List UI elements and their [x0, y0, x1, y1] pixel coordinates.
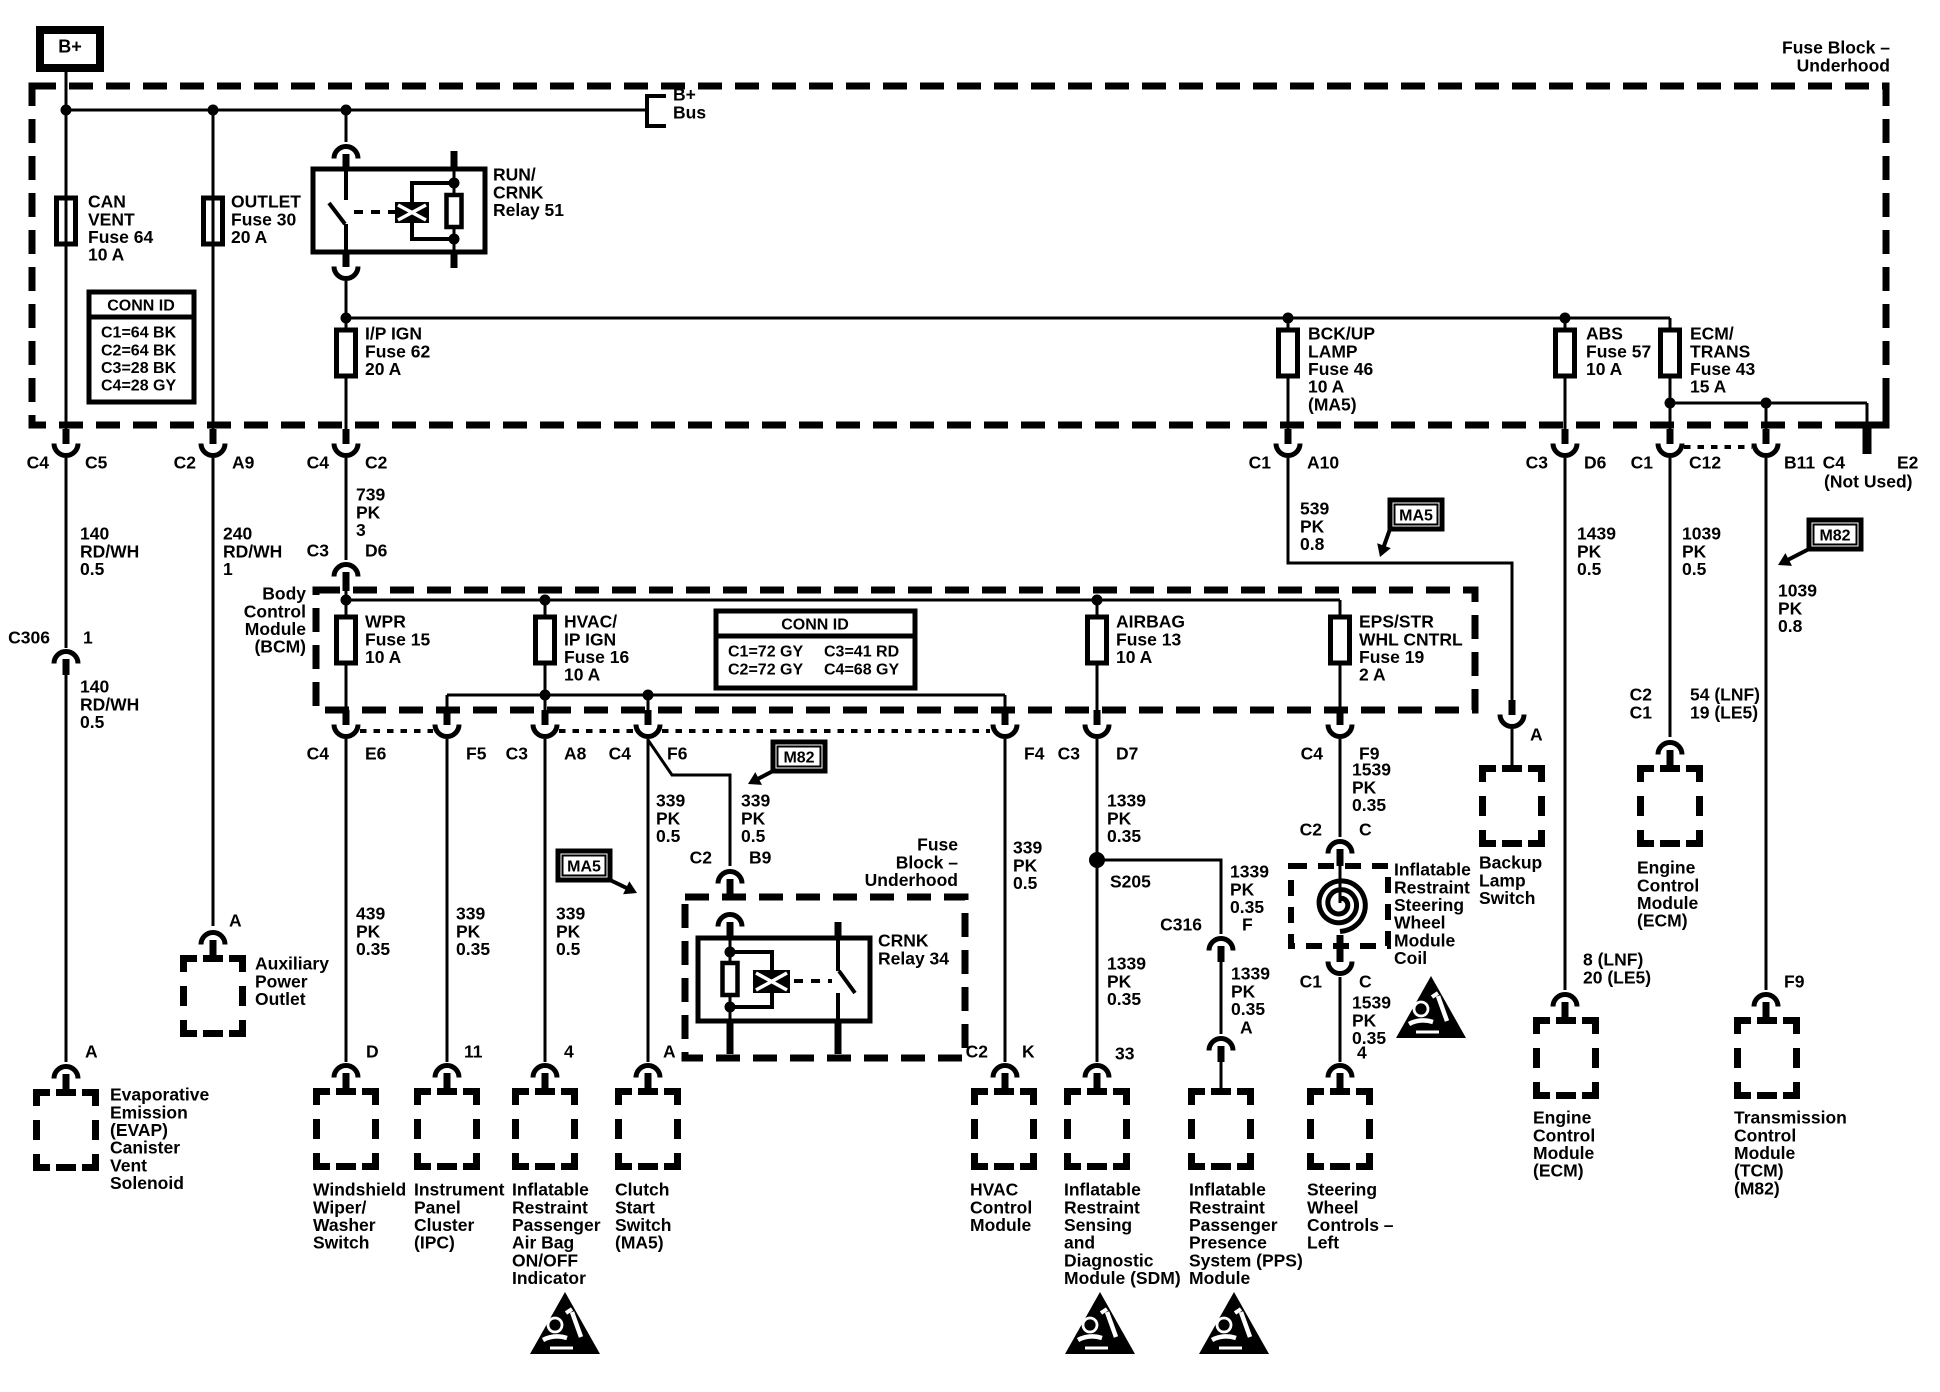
svg-text:A: A [1530, 725, 1543, 745]
svg-text:Solenoid: Solenoid [110, 1173, 184, 1193]
dotted connector tie E6-F5 [360, 729, 433, 733]
wire: into backup lamp switch [1511, 729, 1514, 765]
svg-text:0.35: 0.35 [456, 939, 490, 959]
svg-text:Underhood: Underhood [1797, 55, 1890, 75]
wire: B11 drop [1765, 403, 1768, 429]
svg-text:C2: C2 [690, 848, 713, 868]
svg-text:C3: C3 [1526, 453, 1549, 473]
node: junction AIRBAG fuse [1092, 595, 1103, 606]
svg-text:Outlet: Outlet [255, 989, 306, 1009]
wire: C12 drop [1669, 403, 1672, 429]
connector 11 into IPC [435, 1066, 459, 1078]
node: junction BCK/UP LAMP [1283, 313, 1294, 324]
svg-text:0.5: 0.5 [1577, 559, 1602, 579]
wire: relay 51 output to ignition bus [345, 281, 348, 318]
connector A backup lamp switch (cup) [1509, 700, 1516, 715]
connector 4 into air bag indicator [533, 1066, 557, 1078]
connector F4 (cup) [1002, 710, 1009, 725]
svg-text:C2: C2 [174, 453, 197, 473]
wire 339 PK 0.35 IPC [446, 739, 449, 1062]
fuse WPR Fuse 15 [345, 600, 348, 617]
svg-text:Relay 51: Relay 51 [493, 200, 564, 220]
svg-text:Module: Module [1189, 1268, 1251, 1288]
svg-text:(M82): (M82) [1734, 1178, 1780, 1198]
connector C4/C2 (cup) [343, 429, 350, 444]
wire: fuse 43 splice bus horizontal [1670, 402, 1867, 405]
svg-text:0.35: 0.35 [356, 939, 390, 959]
fuse OUTLET Fuse 30 [204, 198, 223, 244]
svg-text:C3=41 RD: C3=41 RD [824, 644, 899, 661]
connector C4/F6 (cup) [645, 710, 652, 725]
node: junction ABS [1560, 313, 1571, 324]
wire: fuse 43 to splice bus [1669, 376, 1672, 403]
icon: airbag warning triangle (indicator) [530, 1292, 600, 1354]
wire: fuse 46 to A10 [1287, 376, 1290, 429]
connector C2/A9 (cup) [210, 429, 217, 444]
svg-text:A: A [663, 1042, 676, 1062]
svg-text:CONN ID: CONN ID [107, 298, 175, 315]
svg-text:Indicator: Indicator [512, 1268, 586, 1288]
svg-text:S205: S205 [1110, 872, 1151, 892]
component: HVAC control module box [975, 1092, 1034, 1167]
component: transmission control module box [1738, 1021, 1797, 1096]
wire: into PPS module [1220, 1062, 1223, 1088]
svg-text:C1: C1 [1631, 453, 1654, 473]
component: SDM box [1068, 1092, 1127, 1167]
wire: F6 zigzag to B9 [648, 740, 730, 866]
wire: fuse 62 to C2 [345, 376, 348, 429]
connector C3/D6 fuse block (cup) [1562, 429, 1569, 444]
svg-text:D: D [366, 1042, 379, 1062]
svg-text:C4: C4 [307, 744, 330, 764]
wire: F5 drop [446, 695, 449, 710]
node: bus junction at OUTLET feed [208, 105, 219, 116]
svg-text:(IPC): (IPC) [414, 1233, 455, 1253]
wire 140 RD/WH 0.5 upper [65, 458, 68, 648]
svg-text:2 A: 2 A [1359, 665, 1386, 685]
fuse AIRBAG Fuse 13 [1096, 600, 1099, 617]
connector F9 into TCM (cap) [1754, 995, 1778, 1007]
svg-text:B11: B11 [1784, 453, 1815, 473]
svg-text:D7: D7 [1116, 744, 1138, 764]
wire: B+ feed down from B+ box [65, 68, 68, 110]
svg-text:A: A [85, 1042, 98, 1062]
wire: S205 branch to C316 [1097, 860, 1221, 934]
svg-text:C4=28 GY: C4=28 GY [101, 378, 176, 395]
svg-text:C2=72 GY: C2=72 GY [728, 661, 803, 678]
wire 539 PK 0.8 from A10 [1288, 458, 1512, 700]
node: junction I/P IGN [341, 313, 352, 324]
svg-text:19 (LE5): 19 (LE5) [1690, 702, 1758, 722]
svg-text:C306: C306 [8, 628, 50, 648]
svg-text:10 A: 10 A [88, 245, 125, 265]
svg-text:C12: C12 [1689, 453, 1721, 473]
svg-text:0.5: 0.5 [656, 826, 681, 846]
connector A into EVAP solenoid [54, 1067, 78, 1079]
component: clutch start switch box [619, 1092, 678, 1167]
svg-text:15 A: 15 A [1690, 377, 1727, 397]
wire: ignition feed bus horizontal [346, 317, 1670, 320]
svg-text:11: 11 [464, 1042, 483, 1062]
svg-text:(ECM): (ECM) [1637, 911, 1688, 931]
connector A into clutch start switch [636, 1066, 660, 1078]
wire 1039 PK 0.8 [1765, 458, 1768, 990]
svg-text:Switch: Switch [1479, 888, 1535, 908]
wire: fuse 19 to F9 [1339, 663, 1342, 710]
connector C3/A8 (cup) [542, 710, 549, 725]
svg-text:Left: Left [1307, 1233, 1339, 1253]
svg-text:4: 4 [564, 1042, 574, 1062]
svg-text:0.5: 0.5 [1013, 873, 1038, 893]
fuse CAN VENT Fuse 64 [57, 198, 76, 244]
svg-text:10 A: 10 A [365, 647, 402, 667]
connector A into auxiliary power outlet [201, 933, 225, 945]
svg-text:0.5: 0.5 [556, 939, 581, 959]
svg-text:(BCM): (BCM) [254, 637, 306, 657]
component: steering wheel module coil dashed box [1291, 866, 1388, 946]
connector into steering wheel controls [1328, 1066, 1352, 1078]
svg-text:4: 4 [1357, 1043, 1367, 1063]
wire: fuse 16 to lower bus [544, 663, 547, 695]
svg-text:0.5: 0.5 [80, 712, 105, 732]
svg-text:B+: B+ [58, 37, 82, 57]
svg-text:C1=64 BK: C1=64 BK [101, 325, 177, 342]
callout MA5 (clutch wire) [558, 851, 637, 894]
component: engine control module box (right) [1641, 769, 1700, 844]
B+ terminal box [40, 30, 100, 68]
svg-text:0.8: 0.8 [1778, 616, 1803, 636]
svg-text:MA5: MA5 [567, 859, 601, 876]
dotted connector tie F6-F4 [662, 729, 990, 733]
fuse I/P IGN Fuse 62 [345, 318, 348, 330]
svg-text:Switch: Switch [313, 1233, 369, 1253]
wire: BCM lower bus [447, 694, 1005, 697]
component: steering wheel controls box [1311, 1092, 1370, 1167]
svg-text:A: A [229, 911, 242, 931]
connector C3/D6 into BCM (cap) [334, 565, 358, 577]
connector C4/F9 (cup) [1337, 710, 1344, 725]
connector C2/C into coil (cap) [1328, 842, 1352, 854]
svg-text:C4: C4 [27, 453, 50, 473]
wire 1339 PK 0.35 upper SDM [1096, 739, 1099, 1062]
svg-text:F5: F5 [466, 744, 487, 764]
wire 1539 PK 0.35 4 to steering wheel controls [1339, 977, 1342, 1062]
svg-text:A: A [1240, 1018, 1253, 1038]
svg-text:(MA5): (MA5) [1308, 394, 1357, 414]
svg-text:A10: A10 [1307, 453, 1339, 473]
svg-text:D6: D6 [1584, 453, 1607, 473]
svg-text:Coil: Coil [1394, 948, 1427, 968]
svg-text:20 A: 20 A [231, 227, 268, 247]
component: instrument panel cluster box [418, 1092, 477, 1167]
connector into ECM (8/20) (cap) [1553, 995, 1577, 1007]
node: junction B11 feed [1761, 398, 1772, 409]
svg-text:0.35: 0.35 [1107, 989, 1141, 1009]
svg-text:C3: C3 [506, 744, 529, 764]
node: junction F6 [643, 690, 654, 701]
svg-text:10 A: 10 A [1586, 359, 1623, 379]
svg-text:20 (LE5): 20 (LE5) [1583, 967, 1651, 987]
svg-text:0.5: 0.5 [1682, 559, 1707, 579]
wire: OUTLET fuse feed [212, 110, 215, 429]
svg-text:(MA5): (MA5) [615, 1233, 664, 1253]
wire: CAN VENT fuse feed [65, 110, 68, 429]
dotted connector tie A8-F6 [559, 729, 634, 733]
fuse ABS Fuse 57 [1564, 318, 1567, 330]
svg-text:C3: C3 [307, 541, 330, 561]
svg-text:CONN ID: CONN ID [781, 617, 849, 634]
connector D into wiper switch [334, 1066, 358, 1078]
connector C4/C5 (cup) [63, 429, 70, 444]
svg-text:C1: C1 [1249, 453, 1272, 473]
connector C1/C12 (cup) [1667, 429, 1674, 444]
node: junction WPR [341, 595, 352, 606]
svg-text:C2: C2 [1300, 820, 1323, 840]
fuse block - underhood (top) dashed box [32, 86, 1886, 425]
component: engine control module box (left) [1537, 1021, 1596, 1096]
table: CONN ID (BCM) [716, 611, 915, 688]
node: bus junction at CAN VENT feed [61, 105, 72, 116]
svg-text:0.8: 0.8 [1300, 534, 1325, 554]
svg-text:0.5: 0.5 [741, 826, 766, 846]
wire 439 PK 0.35 windshield [345, 739, 348, 1062]
svg-text:C3: C3 [1058, 744, 1081, 764]
svg-text:C: C [1359, 820, 1372, 840]
svg-text:0.35: 0.35 [1231, 999, 1265, 1019]
connector B11 (cup) [1763, 429, 1770, 444]
svg-text:C: C [1359, 972, 1372, 992]
svg-text:C3=28 BK: C3=28 BK [101, 360, 177, 377]
svg-text:10 A: 10 A [564, 665, 601, 685]
wire 140 RD/WH 0.5 lower [65, 675, 68, 1062]
wire 339 PK clutch straight [647, 739, 650, 1062]
wire 1539 PK 0.35 from F9 [1339, 739, 1342, 837]
component: EVAP canister vent solenoid box [37, 1093, 96, 1168]
icon: airbag warning triangle (coil) [1396, 976, 1466, 1038]
node: junction HVAC fuse [540, 595, 551, 606]
wire 739 PK 3 [345, 458, 348, 560]
B+ Bus terminal symbol [647, 96, 666, 126]
component: passenger air bag on/off indicator box [516, 1092, 575, 1167]
svg-text:0.35: 0.35 [1107, 826, 1141, 846]
svg-text:20 A: 20 A [365, 359, 402, 379]
svg-text:0.5: 0.5 [80, 559, 105, 579]
component: PPS module box [1192, 1092, 1251, 1167]
svg-text:B9: B9 [749, 848, 772, 868]
connector C3/D7 (cup) [1094, 710, 1101, 725]
connector A inline above PPS (cap) [1209, 1039, 1233, 1051]
wire: A8 drop [544, 695, 547, 710]
svg-text:1: 1 [83, 628, 93, 648]
svg-text:F9: F9 [1784, 972, 1805, 992]
node: junction A8 [540, 690, 551, 701]
node: bus junction at relay 51 feed [341, 105, 352, 116]
svg-text:3: 3 [356, 520, 366, 540]
wire: fuse 13 to D7 [1096, 663, 1099, 710]
component: auxiliary power outlet box [184, 959, 243, 1034]
connector: coil output stub through box [1337, 935, 1344, 962]
svg-text:1: 1 [223, 559, 233, 579]
svg-text:A8: A8 [564, 744, 587, 764]
svg-text:(ECM): (ECM) [1533, 1161, 1584, 1181]
svg-text:F6: F6 [667, 744, 688, 764]
wire: WPR fuse to E6 [345, 663, 348, 710]
svg-text:Bus: Bus [673, 102, 706, 122]
wire 1339 PK 0.35 to PPS [1220, 962, 1223, 1034]
svg-text:C1: C1 [1300, 972, 1323, 992]
wire 339 PK 0.5 HVAC [1004, 739, 1007, 1062]
svg-text:M82: M82 [1819, 528, 1850, 545]
svg-text:E2: E2 [1897, 453, 1919, 473]
component: backup lamp switch box [1483, 769, 1542, 844]
svg-text:A9: A9 [232, 453, 255, 473]
svg-text:M82: M82 [783, 750, 814, 767]
connector C4/E6 (cup) [343, 710, 350, 725]
svg-text:0.35: 0.35 [1352, 795, 1386, 815]
svg-text:C4: C4 [307, 453, 330, 473]
connector: relay 51 output (cup) [343, 252, 350, 267]
terminal E2 not used (solid bar) [1863, 425, 1872, 454]
node: junction C12 feed [1665, 398, 1676, 409]
connector C2/K into HVAC control module [993, 1066, 1017, 1078]
svg-text:C2: C2 [365, 453, 388, 473]
callout M82 (B9 wire) [748, 742, 825, 785]
callout MA5 (A10 wire) [1377, 500, 1442, 557]
fuse EPS/STR WHL CNTRL Fuse 19 [1331, 617, 1350, 663]
svg-text:C5: C5 [85, 453, 108, 473]
svg-text:F4: F4 [1024, 744, 1045, 764]
svg-text:C2: C2 [966, 1042, 989, 1062]
svg-text:C1=72 GY: C1=72 GY [728, 644, 803, 661]
svg-text:C4: C4 [1301, 744, 1324, 764]
svg-text:Underhood: Underhood [865, 870, 958, 890]
svg-text:F: F [1242, 915, 1253, 935]
wire 240 RD/WH 1 [212, 458, 215, 926]
op: relay CRNK Relay 34 [698, 922, 870, 1054]
wire 1039 PK 0.5 [1669, 458, 1672, 737]
connector 33 into SDM [1085, 1066, 1109, 1078]
icon: airbag warning triangle (PPS) [1199, 1292, 1269, 1354]
svg-text:Module: Module [970, 1215, 1032, 1235]
wire: B+ bus horizontal [64, 109, 647, 112]
dotted connector tie C12-B11 [1684, 445, 1752, 449]
connector: relay 51 pin 1 (cap) [334, 147, 358, 159]
svg-text:C4=68 GY: C4=68 GY [824, 661, 899, 678]
callout M82 (B11 wire) [1778, 520, 1861, 566]
svg-text:33: 33 [1115, 1044, 1135, 1064]
wire: F6 drop [647, 695, 650, 710]
module: body control module dashed box [316, 590, 1475, 710]
fuse block - underhood (lower) dashed box [685, 897, 965, 1058]
connector C2/B9 (cap) [718, 872, 742, 884]
svg-text:MA5: MA5 [1399, 508, 1433, 525]
svg-text:Relay 34: Relay 34 [878, 948, 949, 968]
svg-text:10 A: 10 A [1116, 647, 1153, 667]
wire: fuse 57 to D6 [1564, 376, 1567, 429]
svg-text:C316: C316 [1160, 915, 1202, 935]
svg-text:Module (SDM): Module (SDM) [1064, 1268, 1181, 1288]
svg-text:E6: E6 [365, 744, 387, 764]
icon: airbag warning triangle (SDM) [1065, 1292, 1135, 1354]
wire: EPS fuse drop [1339, 600, 1342, 617]
svg-text:C1: C1 [1630, 702, 1653, 722]
wire: BCM upper bus [346, 599, 1340, 602]
op: relay RUN/CRNK Relay 51 [313, 151, 485, 268]
table: CONN ID (underhood fuse block) [89, 292, 194, 402]
connector C1/A10 (cup) [1285, 429, 1292, 444]
wire 339 PK 0.5 indicator [544, 739, 547, 1062]
connector C316/F (cap) [1209, 939, 1233, 951]
coil: clockspring spiral [1339, 866, 1342, 903]
component: windshield wiper/washer switch box [317, 1092, 376, 1167]
connector C306 (cap) [54, 652, 78, 664]
wire: E2 drop [1866, 403, 1869, 425]
wire: F4 drop [1004, 695, 1007, 710]
dash: fuse block bottom-right corner [1846, 396, 1886, 425]
svg-text:D6: D6 [365, 541, 388, 561]
svg-text:C4: C4 [609, 744, 632, 764]
wire 1439 PK 0.5 [1564, 458, 1567, 990]
connector: B9 cavity entry (cap) [718, 915, 742, 927]
svg-text:C4: C4 [1823, 453, 1846, 473]
connector C2/C1 into ECM (cap) [1658, 743, 1682, 755]
wire: D6 stub to BCM bus [345, 588, 348, 600]
fuse ECM/TRANS Fuse 43 [1669, 318, 1672, 330]
svg-text:(Not Used): (Not Used) [1824, 472, 1912, 492]
fuse HVAC/IP IGN Fuse 16 [544, 600, 547, 617]
svg-text:C2=64 BK: C2=64 BK [101, 342, 177, 359]
fuse BCK/UP LAMP Fuse 46 [1287, 318, 1290, 330]
wire: relay 51 feed from bus [345, 110, 348, 142]
connector F5 (cup) [444, 710, 451, 725]
svg-text:K: K [1022, 1042, 1035, 1062]
connector C1/C below coil (cup) [1328, 962, 1352, 974]
splice S205 [1089, 852, 1105, 868]
